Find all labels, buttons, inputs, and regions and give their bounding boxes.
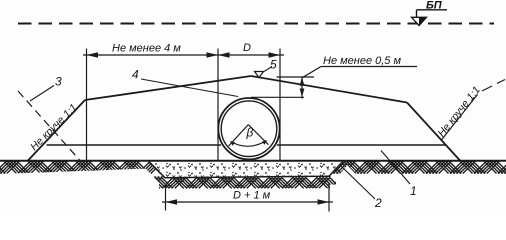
leader 5 <box>264 67 273 72</box>
svg-text:5: 5 <box>270 58 277 72</box>
svg-text:Не менее 4 м: Не менее 4 м <box>112 43 181 55</box>
trench right slope <box>329 161 343 176</box>
callout 3 leader <box>30 86 54 102</box>
svg-text:D: D <box>243 42 251 54</box>
extension line pipe right tangent <box>279 49 281 161</box>
extension line left (4m dim) <box>86 49 88 161</box>
waterline dashed (БП level) <box>18 23 494 25</box>
label Не круче 1:1 left <box>28 102 79 153</box>
svg-text:D + 1 м: D + 1 м <box>233 190 271 202</box>
embankment left slope 1:1 <box>28 100 85 161</box>
inner fill layer line right of pipe <box>277 144 446 146</box>
embankment right slope 1:1 <box>407 103 460 161</box>
extension line pipe left tangent <box>217 49 219 161</box>
leader to 0.5m label <box>302 67 321 78</box>
svg-text:4: 4 <box>132 68 139 82</box>
svg-text:1: 1 <box>410 184 417 198</box>
bottom dimension extension left <box>165 186 167 211</box>
svg-text:Не менее 0,5 м: Не менее 0,5 м <box>323 55 401 67</box>
inner fill layer line left of pipe <box>47 144 222 146</box>
ground line <box>0 160 506 162</box>
svg-text:β: β <box>246 126 254 140</box>
label Не круче 1:1 right <box>436 84 483 139</box>
svg-text:2: 2 <box>374 196 382 210</box>
label Не круче 1:1 right leader <box>441 95 478 141</box>
pipe outer wall <box>218 98 279 159</box>
0.5m bottom reference line (pipe top level) <box>251 96 304 98</box>
embankment right top surface <box>251 76 407 103</box>
soil hatch upper strip <box>0 161 506 188</box>
dimension line Не менее 4 м <box>83 54 284 56</box>
level mark БП <box>412 10 448 26</box>
dimension D arrows <box>218 52 230 58</box>
svg-text:Не круче 1:1: Не круче 1:1 <box>436 84 483 139</box>
callout 1 leader <box>381 151 410 185</box>
svg-text:3: 3 <box>55 75 62 89</box>
callout 3 dashed line <box>18 91 80 161</box>
0.5m vertical dimension <box>301 77 303 99</box>
0.5m top reference line <box>277 76 315 78</box>
embankment left top surface <box>85 76 251 100</box>
bottom dimension extension right <box>328 184 330 212</box>
callout 2 leader <box>340 165 375 199</box>
dimension line D + 1 м <box>162 201 333 203</box>
peak mark triangle <box>255 72 264 78</box>
trench bottom <box>165 176 329 178</box>
callout 4 leader <box>141 79 238 97</box>
trench left slope <box>149 161 166 178</box>
soil hatch lower strip <box>0 177 506 189</box>
angle beta arc with arrows <box>231 141 267 147</box>
sand bedding fill in trench <box>150 162 341 177</box>
angle beta rays <box>229 125 269 146</box>
svg-text:БП: БП <box>426 0 443 12</box>
pipe inner wall <box>221 101 277 157</box>
